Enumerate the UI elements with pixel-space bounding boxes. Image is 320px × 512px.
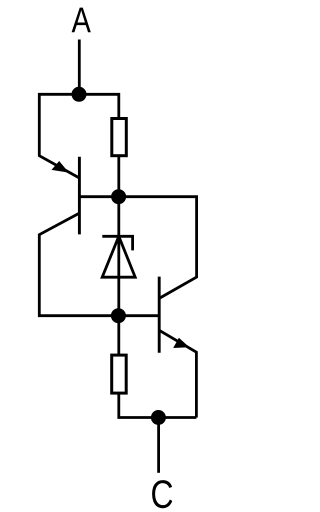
diode D1 triangle (anode, pointing up) [102, 236, 135, 277]
node A label [72, 8, 91, 33]
wire node B2 down to R2 [117, 316, 120, 355]
transistor Q1 (PNP) emitter wire [39, 94, 79, 178]
wire top horizontal to R1 [79, 94, 119, 118]
resistor R2 [112, 355, 127, 393]
wire anode terminal [78, 40, 81, 95]
node C label [152, 480, 172, 508]
transistor Q1 base wire to node B1 [79, 195, 118, 198]
wire R1 bottom to node B1 [117, 156, 120, 197]
junction dot node A / Q1 emitter / R1 top [72, 87, 87, 102]
transistor Q1 emitter arrow (points into base bar, PNP) [52, 161, 69, 173]
transistor Q2 base bar [158, 277, 161, 353]
junction dot node B1 (Q1 base / Q2 collector / diode cathode) [111, 189, 126, 204]
diode D1 cathode bar with right tail [102, 236, 132, 250]
resistor R1 [112, 119, 127, 156]
transistor Q2 (NPN) base wire [118, 314, 159, 317]
transistor Q2 emitter wire down-right to node C [159, 330, 196, 417]
transistor Q1 base bar [78, 157, 81, 235]
transistor Q1 collector wire down-left to node B2 [39, 213, 118, 316]
wire R2 bottom to cathode rail [119, 393, 197, 417]
junction dot node C (R2 bottom / Q2 emitter / cathode) [151, 410, 166, 425]
junction dot node B2 (Q2 base / Q1 collector / R2 top) [111, 308, 126, 323]
wire cathode terminal [157, 418, 160, 473]
transistor Q2 emitter arrow (points away from bar, NPN) [173, 338, 189, 348]
wire node B1 down through diode to node B2 [117, 197, 120, 316]
wire node B1 right and down to Q2 collector [119, 197, 197, 299]
